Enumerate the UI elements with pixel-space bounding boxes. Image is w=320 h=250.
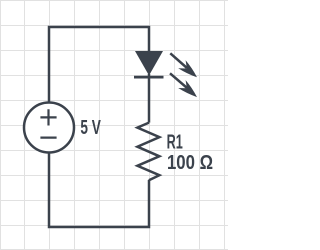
led light arrow 1 [170,53,197,77]
svg-text:100 Ω: 100 Ω [167,152,213,174]
led light arrow 2 [170,73,197,97]
led D1 cathode bar [134,76,164,79]
voltage source plus sign [40,109,56,125]
led D1 triangle (anode) [135,51,163,76]
voltage source V1 (circle) [24,103,74,153]
grid background [0,0,228,250]
wire: LED cathode to resistor top [148,74,151,123]
resistor R1 zigzag [137,123,159,181]
svg-text:R1: R1 [167,132,183,154]
voltage source minus sign [40,137,56,139]
wire: bottom segment [49,153,149,228]
svg-text:5 V: 5 V [80,117,101,139]
wire: top segment from left branch to LED branch [49,27,149,103]
